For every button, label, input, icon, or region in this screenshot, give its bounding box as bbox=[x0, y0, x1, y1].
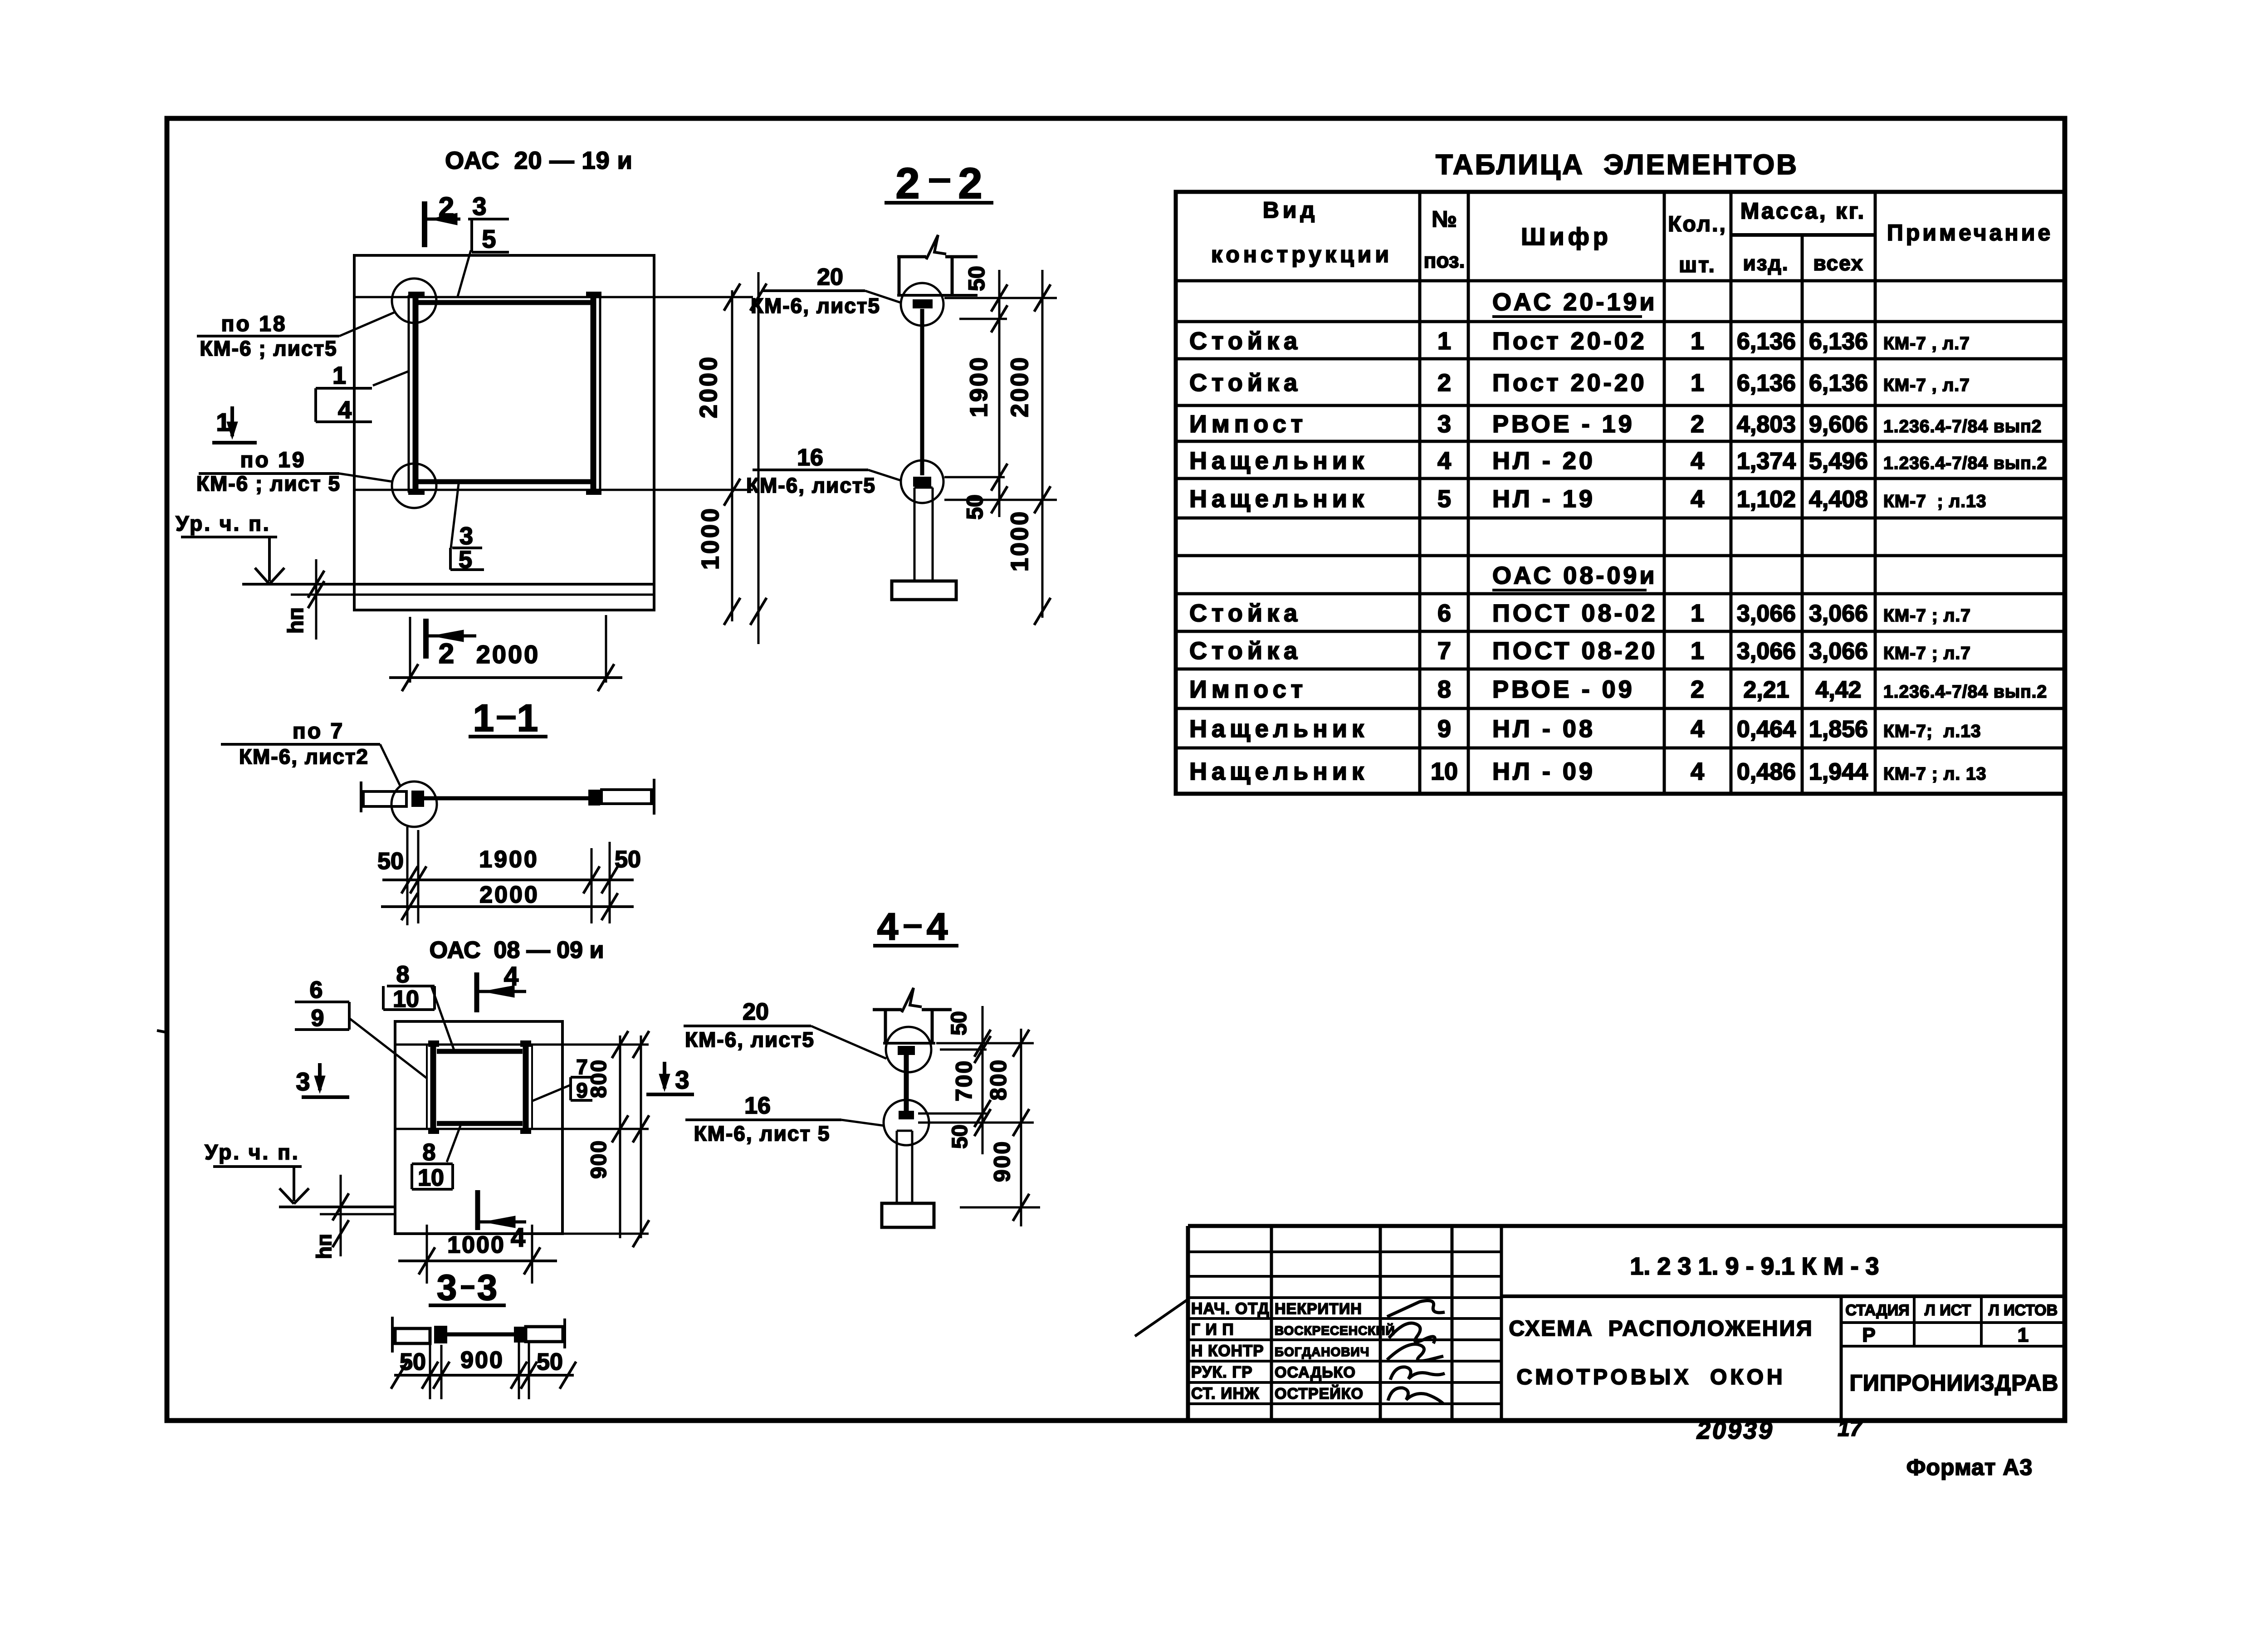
svg-text:900: 900 bbox=[989, 1140, 1015, 1182]
svg-text:4: 4 bbox=[927, 905, 948, 948]
svg-text:Н КОНТР: Н КОНТР bbox=[1191, 1342, 1264, 1360]
svg-text:3: 3 bbox=[437, 1267, 457, 1308]
svg-text:5,496: 5,496 bbox=[1809, 448, 1868, 474]
svg-text:№: № bbox=[1432, 206, 1457, 232]
svg-text:1: 1 bbox=[517, 697, 538, 739]
svg-text:поз.: поз. bbox=[1424, 249, 1465, 272]
svg-text:1: 1 bbox=[1691, 600, 1704, 627]
svg-text:ТАБЛИЦА ЭЛЕМЕНТОВ: ТАБЛИЦА ЭЛЕМЕНТОВ bbox=[1436, 149, 1799, 181]
svg-text:8: 8 bbox=[1437, 676, 1451, 703]
svg-text:Л ИСТОВ: Л ИСТОВ bbox=[1989, 1302, 2058, 1319]
svg-text:4: 4 bbox=[504, 962, 518, 991]
svg-text:ОАС 20-19и: ОАС 20-19и bbox=[1492, 288, 1657, 316]
svg-text:КМ-6, лист5: КМ-6, лист5 bbox=[685, 1028, 815, 1051]
svg-text:КМ-7; л.13: КМ-7; л.13 bbox=[1883, 722, 1981, 741]
svg-text:конструкции: конструкции bbox=[1211, 242, 1393, 267]
svg-text:Импост: Импост bbox=[1189, 676, 1307, 703]
svg-text:НЛ - 19: НЛ - 19 bbox=[1492, 485, 1595, 513]
svg-text:9: 9 bbox=[576, 1079, 588, 1102]
svg-text:Г И П: Г И П bbox=[1191, 1321, 1234, 1338]
svg-text:50: 50 bbox=[377, 848, 404, 874]
svg-text:50: 50 bbox=[537, 1349, 563, 1375]
svg-text:0,486: 0,486 bbox=[1737, 759, 1796, 785]
svg-text:4: 4 bbox=[1691, 715, 1704, 742]
svg-text:РВОЕ - 09: РВОЕ - 09 bbox=[1492, 676, 1635, 703]
svg-text:КМ-6 ; лист5: КМ-6 ; лист5 bbox=[200, 337, 337, 360]
svg-text:20939: 20939 bbox=[1696, 1417, 1774, 1444]
svg-text:9: 9 bbox=[311, 1005, 324, 1031]
svg-text:9: 9 bbox=[1437, 715, 1451, 742]
svg-text:КМ-6, лист5: КМ-6, лист5 bbox=[746, 474, 876, 497]
svg-text:Ур. ч. п.: Ур. ч. п. bbox=[176, 512, 270, 535]
svg-text:КМ-6 ; лист 5: КМ-6 ; лист 5 bbox=[196, 472, 341, 495]
svg-text:1: 1 bbox=[1437, 327, 1451, 355]
svg-text:2: 2 bbox=[1691, 676, 1704, 703]
svg-text:КМ-6, лист2: КМ-6, лист2 bbox=[239, 745, 369, 768]
svg-text:900: 900 bbox=[460, 1347, 504, 1373]
svg-text:6,136: 6,136 bbox=[1737, 328, 1796, 355]
svg-text:Пост 20-20: Пост 20-20 bbox=[1492, 369, 1647, 396]
svg-text:17: 17 bbox=[1838, 1417, 1863, 1441]
svg-text:4: 4 bbox=[1691, 758, 1704, 785]
svg-text:50: 50 bbox=[948, 1124, 972, 1148]
svg-text:10: 10 bbox=[1431, 758, 1458, 785]
svg-text:шт.: шт. bbox=[1679, 253, 1716, 277]
svg-text:20: 20 bbox=[743, 999, 769, 1025]
svg-text:РВОЕ - 19: РВОЕ - 19 bbox=[1492, 410, 1635, 438]
svg-text:ОАС 08-09и: ОАС 08-09и bbox=[1492, 562, 1657, 589]
svg-text:РУК. ГР: РУК. ГР bbox=[1191, 1363, 1253, 1381]
svg-text:1: 1 bbox=[473, 697, 494, 739]
svg-text:2: 2 bbox=[1691, 410, 1704, 438]
svg-text:Стойка: Стойка bbox=[1189, 637, 1302, 664]
svg-text:1: 1 bbox=[2018, 1324, 2028, 1346]
svg-text:3: 3 bbox=[459, 523, 473, 550]
svg-text:1. 2 3 1. 9 - 9.1 К М - 3: 1. 2 3 1. 9 - 9.1 К М - 3 bbox=[1630, 1253, 1879, 1280]
svg-text:3,066: 3,066 bbox=[1809, 601, 1868, 627]
svg-text:1900: 1900 bbox=[965, 356, 992, 417]
svg-text:2: 2 bbox=[1437, 369, 1451, 396]
svg-text:2: 2 bbox=[439, 638, 454, 669]
svg-text:НАЧ. ОТД: НАЧ. ОТД bbox=[1191, 1300, 1270, 1318]
svg-text:2000: 2000 bbox=[476, 640, 540, 669]
svg-text:КМ-6, лист5: КМ-6, лист5 bbox=[751, 294, 880, 317]
svg-text:7: 7 bbox=[1437, 637, 1451, 664]
svg-text:1.236.4-7/84 вып.2: 1.236.4-7/84 вып.2 bbox=[1883, 682, 2047, 702]
svg-text:1000: 1000 bbox=[697, 506, 724, 570]
svg-text:КМ-7 ; л.13: КМ-7 ; л.13 bbox=[1883, 492, 1986, 511]
svg-text:Р: Р bbox=[1862, 1324, 1875, 1346]
svg-text:ПОСТ 08-02: ПОСТ 08-02 bbox=[1492, 600, 1658, 627]
svg-text:4: 4 bbox=[338, 396, 352, 424]
svg-text:НЛ - 09: НЛ - 09 bbox=[1492, 758, 1595, 785]
svg-text:Нащельник: Нащельник bbox=[1189, 485, 1369, 513]
svg-text:1.236.4-7/84 вып.2: 1.236.4-7/84 вып.2 bbox=[1883, 454, 2047, 473]
svg-text:всех: всех bbox=[1813, 251, 1863, 275]
svg-text:Стойка: Стойка bbox=[1189, 327, 1302, 355]
svg-text:3: 3 bbox=[296, 1067, 310, 1096]
svg-text:изд.: изд. bbox=[1743, 251, 1789, 275]
svg-text:Формат А3: Формат А3 bbox=[1906, 1455, 2033, 1480]
svg-text:6: 6 bbox=[1437, 600, 1451, 627]
svg-text:2: 2 bbox=[958, 159, 982, 208]
svg-text:НЕКРИТИН: НЕКРИТИН bbox=[1275, 1300, 1362, 1318]
svg-text:5: 5 bbox=[482, 225, 496, 253]
svg-text:Кол.,: Кол., bbox=[1668, 212, 1727, 236]
svg-text:КМ-7 ; л. 13: КМ-7 ; л. 13 bbox=[1883, 764, 1986, 784]
svg-text:1,102: 1,102 bbox=[1737, 486, 1796, 513]
svg-text:1: 1 bbox=[1691, 369, 1704, 396]
svg-text:ОСТРЕЙКО: ОСТРЕЙКО bbox=[1275, 1385, 1364, 1402]
svg-text:ПОСТ 08-20: ПОСТ 08-20 bbox=[1492, 637, 1658, 664]
svg-text:3: 3 bbox=[1437, 410, 1451, 438]
svg-text:НЛ - 08: НЛ - 08 bbox=[1492, 715, 1595, 742]
svg-text:1000: 1000 bbox=[447, 1232, 505, 1258]
svg-text:Импост: Импост bbox=[1189, 410, 1307, 438]
svg-text:700: 700 bbox=[951, 1060, 977, 1101]
svg-text:4: 4 bbox=[511, 1223, 525, 1252]
svg-text:СТ. ИНЖ: СТ. ИНЖ bbox=[1191, 1385, 1259, 1402]
svg-text:2000: 2000 bbox=[695, 355, 722, 418]
svg-text:1000: 1000 bbox=[1006, 510, 1033, 571]
svg-text:ОАС 08 — 09 и: ОАС 08 — 09 и bbox=[430, 937, 604, 963]
svg-text:2000: 2000 bbox=[479, 882, 539, 908]
svg-text:Примечание: Примечание bbox=[1887, 220, 2053, 245]
svg-text:Вид: Вид bbox=[1263, 197, 1319, 223]
svg-text:КМ-7 , л.7: КМ-7 , л.7 bbox=[1883, 376, 1970, 395]
svg-text:Нащельник: Нащельник bbox=[1189, 715, 1369, 742]
svg-text:2,21: 2,21 bbox=[1743, 677, 1789, 703]
svg-text:50: 50 bbox=[615, 846, 641, 873]
svg-text:Масса, кг.: Масса, кг. bbox=[1740, 198, 1866, 224]
svg-text:ОСАДЬКО: ОСАДЬКО bbox=[1275, 1364, 1356, 1381]
svg-text:hп: hп bbox=[284, 607, 308, 634]
svg-text:1,944: 1,944 bbox=[1809, 759, 1868, 785]
svg-text:4: 4 bbox=[1691, 485, 1704, 513]
svg-text:1,856: 1,856 bbox=[1809, 716, 1868, 742]
svg-text:16: 16 bbox=[744, 1093, 771, 1119]
svg-text:16: 16 bbox=[797, 444, 823, 471]
svg-text:4,408: 4,408 bbox=[1809, 486, 1868, 513]
svg-text:Шифр: Шифр bbox=[1521, 223, 1612, 250]
svg-text:СТАДИЯ: СТАДИЯ bbox=[1845, 1302, 1909, 1319]
svg-text:9,606: 9,606 bbox=[1809, 411, 1868, 438]
svg-text:ВОСКРЕСЕНСКИЙ: ВОСКРЕСЕНСКИЙ bbox=[1275, 1323, 1395, 1338]
svg-text:800: 800 bbox=[986, 1059, 1011, 1100]
svg-text:8: 8 bbox=[396, 962, 410, 988]
svg-text:7: 7 bbox=[576, 1055, 588, 1079]
svg-text:3,066: 3,066 bbox=[1737, 601, 1796, 627]
svg-text:3: 3 bbox=[675, 1065, 689, 1094]
svg-text:1900: 1900 bbox=[479, 846, 539, 873]
svg-text:Нащельник: Нащельник bbox=[1189, 758, 1369, 785]
svg-text:НЛ - 20: НЛ - 20 bbox=[1492, 447, 1595, 474]
svg-text:4: 4 bbox=[1691, 447, 1704, 474]
svg-text:6,136: 6,136 bbox=[1809, 370, 1868, 396]
svg-text:3,066: 3,066 bbox=[1737, 638, 1796, 664]
svg-text:КМ-7 ; л.7: КМ-7 ; л.7 bbox=[1883, 606, 1971, 625]
svg-text:10: 10 bbox=[418, 1165, 444, 1191]
svg-text:6,136: 6,136 bbox=[1809, 328, 1868, 355]
svg-text:0,464: 0,464 bbox=[1737, 716, 1796, 742]
svg-text:5: 5 bbox=[1437, 485, 1451, 513]
svg-text:Л ИСТ: Л ИСТ bbox=[1925, 1302, 1971, 1319]
svg-text:ОАС 20 — 19 и: ОАС 20 — 19 и bbox=[445, 147, 633, 174]
svg-text:50: 50 bbox=[962, 494, 987, 520]
svg-text:по 7: по 7 bbox=[293, 719, 344, 743]
svg-text:БОГДАНОВИЧ: БОГДАНОВИЧ bbox=[1275, 1345, 1369, 1359]
svg-text:1: 1 bbox=[1691, 637, 1704, 664]
svg-text:по 18: по 18 bbox=[221, 312, 287, 336]
svg-text:СХЕМА РАСПОЛОЖЕНИЯ: СХЕМА РАСПОЛОЖЕНИЯ bbox=[1509, 1317, 1813, 1341]
svg-text:КМ-7 , л.7: КМ-7 , л.7 bbox=[1883, 334, 1970, 353]
svg-text:50: 50 bbox=[964, 266, 989, 291]
svg-text:4: 4 bbox=[1437, 447, 1451, 474]
svg-text:900: 900 bbox=[587, 1140, 611, 1179]
svg-text:СМОТРОВЫХ ОКОН: СМОТРОВЫХ ОКОН bbox=[1516, 1365, 1785, 1389]
svg-text:4,803: 4,803 bbox=[1737, 411, 1796, 438]
svg-text:2000: 2000 bbox=[1006, 356, 1033, 417]
svg-text:6,136: 6,136 bbox=[1737, 370, 1796, 396]
svg-text:2: 2 bbox=[895, 159, 919, 208]
svg-text:3: 3 bbox=[472, 192, 486, 220]
svg-text:Стойка: Стойка bbox=[1189, 600, 1302, 627]
svg-text:по 19: по 19 bbox=[240, 448, 306, 472]
svg-text:8: 8 bbox=[423, 1139, 436, 1166]
svg-text:3,066: 3,066 bbox=[1809, 638, 1868, 664]
svg-text:Пост 20-02: Пост 20-02 bbox=[1492, 327, 1647, 355]
svg-text:2: 2 bbox=[439, 192, 454, 223]
svg-text:1: 1 bbox=[332, 362, 346, 389]
svg-text:1: 1 bbox=[1691, 327, 1704, 355]
svg-text:4,42: 4,42 bbox=[1815, 677, 1861, 703]
svg-text:Нащельник: Нащельник bbox=[1189, 447, 1369, 474]
svg-text:50: 50 bbox=[400, 1349, 426, 1375]
svg-text:6: 6 bbox=[310, 977, 323, 1003]
svg-text:КМ-7 ; л.7: КМ-7 ; л.7 bbox=[1883, 644, 1971, 663]
svg-text:1.236.4-7/84 вып2: 1.236.4-7/84 вып2 bbox=[1883, 417, 2042, 436]
svg-text:20: 20 bbox=[817, 264, 843, 290]
svg-text:4: 4 bbox=[877, 905, 899, 948]
svg-text:Стойка: Стойка bbox=[1189, 369, 1302, 396]
svg-text:1,374: 1,374 bbox=[1737, 448, 1796, 474]
svg-text:ГИПРОНИИЗДРАВ: ГИПРОНИИЗДРАВ bbox=[1850, 1370, 2059, 1396]
svg-text:КМ-6, лист 5: КМ-6, лист 5 bbox=[694, 1122, 831, 1145]
svg-text:50: 50 bbox=[947, 1011, 971, 1035]
svg-text:3: 3 bbox=[477, 1267, 498, 1308]
svg-text:Ур. ч. п.: Ур. ч. п. bbox=[205, 1140, 299, 1164]
